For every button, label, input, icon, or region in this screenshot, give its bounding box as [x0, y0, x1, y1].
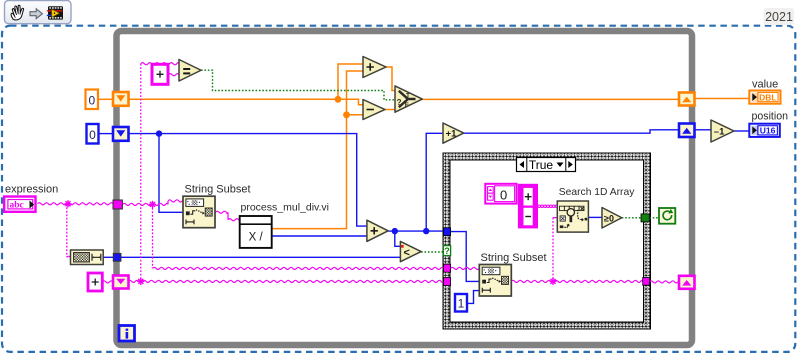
junction star string A: [64, 200, 71, 207]
wire blue: decrement to position indicator: [734, 130, 750, 132]
equal node: [179, 60, 201, 82]
svg-text:0: 0: [500, 188, 507, 203]
position U16 indicator: [749, 124, 780, 137]
string constant plus (top): [152, 64, 168, 84]
label value: [752, 79, 778, 91]
shift register left blue: [113, 127, 129, 141]
svg-text:1: 1: [458, 297, 465, 311]
svg-text:DBL: DBL: [759, 92, 776, 102]
svg-text:String Subset: String Subset: [185, 183, 251, 195]
svg-text:F: F: [405, 102, 409, 109]
numeric constant 1 blue: [455, 294, 467, 312]
wire blue: case tunnel to string subset 2 offset: [451, 232, 480, 282]
svg-text:process_mul_div.vi: process_mul_div.vi: [241, 202, 330, 214]
wire blue: shift register to add node and string subset offset: [128, 134, 367, 227]
loop iteration terminal i: [119, 326, 135, 342]
svg-text:value: value: [752, 79, 778, 91]
wire boolean: equal to select selector: [201, 70, 395, 100]
search 1d array node: [557, 201, 588, 232]
wire string: expression to loop tunnel: [38, 203, 114, 205]
svg-text:U16: U16: [760, 126, 776, 136]
decrement node -1: [711, 120, 734, 142]
case tunnel pink lower: [444, 278, 451, 286]
wire string array: beaded wire from array constant to search: [538, 205, 558, 208]
case selector terminal ?: [443, 246, 450, 256]
add node top: [363, 57, 386, 78]
wire string: expression branch down to string length: [66, 204, 68, 257]
string subset node 1: [183, 196, 215, 228]
svg-text:Search 1D Array: Search 1D Array: [559, 187, 635, 198]
wire blue: search 1d array to greater-equal: [588, 216, 602, 218]
junction star string D: [549, 278, 556, 285]
svg-text:0: 0: [88, 94, 95, 108]
wire string: pink shift register along loop to case tunnel (lower): [128, 280, 444, 282]
string array constant index box: [485, 184, 516, 204]
junction dot blue B: [392, 228, 398, 234]
numeric constant 0 orange: [86, 90, 99, 110]
process_mul_div.vi subvi: [240, 216, 272, 248]
wire blue: right shift register to decrement: [695, 129, 711, 131]
shift register right orange: [679, 93, 695, 106]
wire string: string subset 1 to process_mul_div: [216, 211, 240, 221]
wire string: case to right pink shift register: [649, 281, 679, 283]
wire orange: select output to right shift register: [422, 98, 679, 100]
shift register right pink: [679, 276, 695, 289]
label String Subset 2: [481, 252, 547, 264]
junction dot orange A: [335, 96, 342, 103]
case selector label True: [517, 158, 576, 173]
wire blue: string length output to tunnel: [103, 256, 114, 258]
shift register left pink: [113, 276, 129, 289]
greater-equal zero node: [602, 208, 622, 229]
numeric constant 0 blue: [87, 124, 99, 144]
wire string: branch down to case tunnel (upper): [152, 204, 154, 268]
junction dot blue C: [423, 228, 429, 234]
loop tunnel pink (expression): [113, 200, 122, 209]
shift register right blue: [679, 124, 695, 138]
string constant plus (bottom): [88, 273, 102, 291]
svg-text:<: <: [404, 247, 410, 259]
svg-text:?: ?: [444, 246, 450, 256]
junction dot blue A: [156, 130, 162, 136]
wire string: tunnel to string subset 1: [123, 200, 184, 206]
svg-text:String Subset: String Subset: [481, 252, 547, 264]
subtract node: [363, 100, 385, 120]
wire blue: increment to right shift register: [464, 130, 679, 133]
toolbar hand tool icon: [11, 5, 24, 20]
wire blue: process_mul_div output to add node: [272, 235, 367, 237]
svg-text:abc: abc: [10, 201, 24, 211]
coercion dot red: [401, 245, 404, 248]
svg-text:?: ?: [397, 98, 402, 107]
svg-text:True: True: [529, 158, 554, 172]
wire string: shift register char up to equal node: [140, 64, 142, 282]
case tunnel blue (index in): [444, 228, 451, 236]
select node: [395, 86, 422, 112]
label expression: [5, 183, 58, 195]
loop tunnel blue (string length): [113, 253, 121, 261]
shift register left orange: [113, 92, 129, 106]
LabVIEW version tag 2021: [764, 8, 795, 25]
wire string: case tunnel to string subset 2: [451, 267, 480, 269]
junction dot orange B: [343, 111, 350, 118]
wire orange: right shift register to value indicator: [695, 98, 750, 100]
increment node +1: [443, 123, 464, 143]
wire blue: add output to case tunnel: [388, 133, 444, 246]
junction star string C: [137, 278, 144, 285]
case tunnel green (boolean out): [641, 214, 649, 222]
while loop border: [117, 31, 693, 345]
junction star string B: [149, 201, 156, 208]
label process_mul_div.vi: [241, 202, 330, 214]
label String Subset 1: [185, 183, 251, 195]
less-than node: [400, 241, 421, 261]
svg-text:X /: X /: [249, 232, 264, 244]
svg-text:position: position: [752, 111, 789, 123]
svg-text:–1: –1: [714, 126, 725, 137]
svg-text:2021: 2021: [765, 10, 793, 24]
case tunnel pink upper: [444, 264, 451, 272]
wire orange: constant 0 to left shift register: [98, 98, 114, 100]
svg-text:+1: +1: [446, 129, 458, 140]
wire string: plus constant to left pink shift register: [102, 281, 114, 283]
wire string: string subset 2 output to right case tunnel: [511, 280, 642, 282]
wire string: plus constant to equal node: [169, 74, 180, 76]
svg-text:0: 0: [89, 128, 96, 142]
wire blue: constant 1 to string subset 2 length: [467, 291, 479, 304]
wire boolean: case tunnel to loop condition terminal: [649, 217, 659, 219]
wire blue: string length to less-than input: [121, 256, 400, 258]
expression string control: [4, 197, 35, 212]
svg-text:T: T: [406, 92, 410, 99]
string array constant elements + -: [518, 184, 538, 229]
wire boolean: greater-equal to case tunnel: [622, 217, 641, 219]
wire blue: constant 0 to left shift register: [99, 133, 115, 135]
case structure border: [443, 153, 651, 329]
wire orange: shift register to subtract and add nodes: [128, 64, 363, 105]
string length node: [71, 250, 104, 265]
svg-text:≥0: ≥0: [604, 214, 614, 224]
case tunnel pink right (string out): [643, 278, 650, 286]
wire orange: add output to select true input: [386, 67, 395, 91]
label position: [752, 111, 789, 123]
add node middle: [367, 220, 388, 241]
svg-text:expression: expression: [5, 183, 58, 195]
label Search 1D Array: [559, 187, 635, 198]
toolbar arrow icon: [30, 9, 42, 19]
loop condition terminal: [659, 208, 675, 224]
string subset node 2: [479, 265, 511, 297]
wire string: branch up to search element input: [552, 218, 554, 282]
wire boolean: less-than to case selector: [421, 251, 444, 253]
wire orange: process_mul_div output up to add/subtract inputs: [272, 71, 363, 229]
wire orange: subtract output to select false input: [385, 109, 395, 111]
toolbar palette: [5, 1, 72, 24]
value DBL indicator: [749, 91, 780, 104]
toolbar VI icon: [47, 6, 63, 19]
